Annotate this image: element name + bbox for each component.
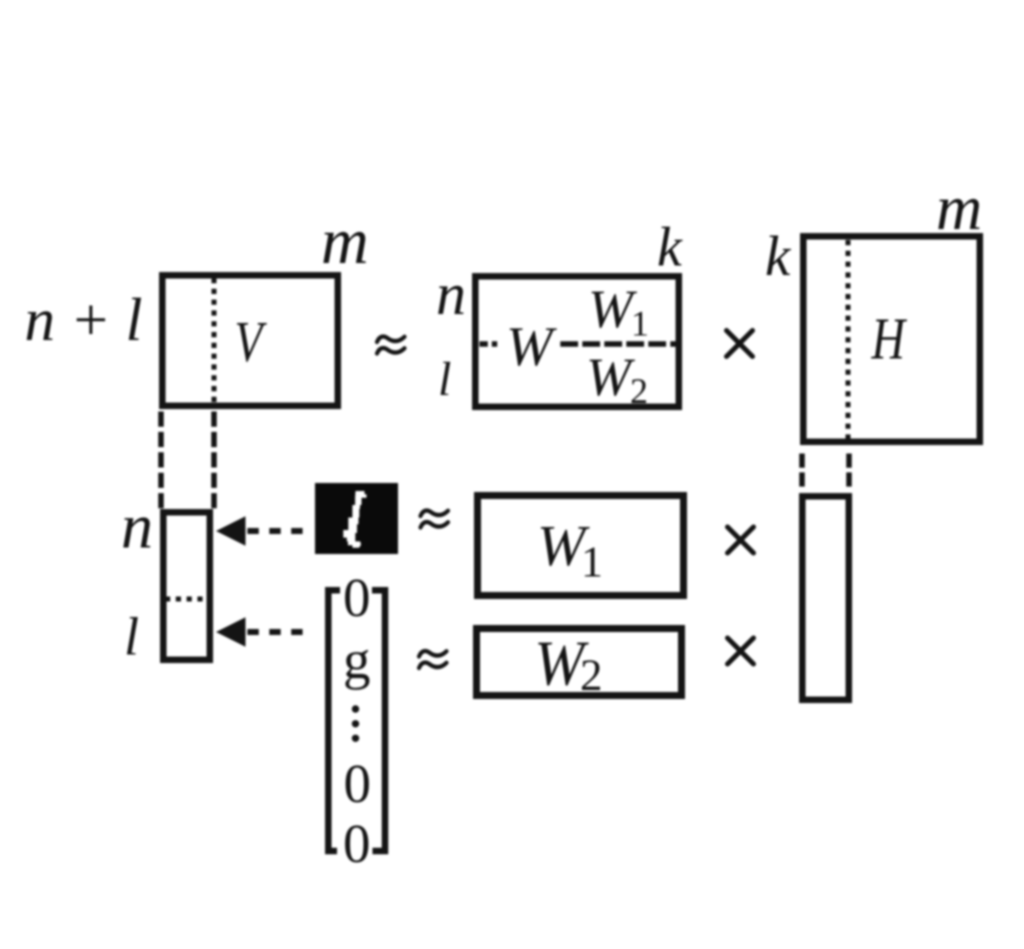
- svg-text:n + l: n + l: [25, 287, 143, 354]
- svg-text:l: l: [124, 607, 139, 667]
- svg-text:0: 0: [343, 813, 371, 874]
- svg-text:H: H: [871, 306, 908, 372]
- svg-text:2: 2: [580, 650, 603, 700]
- svg-text:W: W: [506, 316, 557, 378]
- svg-text:n: n: [121, 491, 153, 562]
- svg-text:W: W: [586, 347, 636, 407]
- svg-text:1: 1: [581, 538, 603, 587]
- svg-text:l: l: [438, 353, 451, 406]
- svg-text:k: k: [657, 217, 683, 279]
- svg-text:0: 0: [343, 567, 371, 628]
- svg-text:m: m: [321, 205, 369, 278]
- svg-text:2: 2: [630, 371, 648, 411]
- svg-text:k: k: [765, 225, 792, 288]
- svg-text:n: n: [436, 261, 466, 327]
- svg-text:0: 0: [344, 753, 372, 814]
- svg-text:g: g: [343, 629, 371, 690]
- svg-text:1: 1: [631, 304, 649, 344]
- svg-text:m: m: [936, 172, 982, 243]
